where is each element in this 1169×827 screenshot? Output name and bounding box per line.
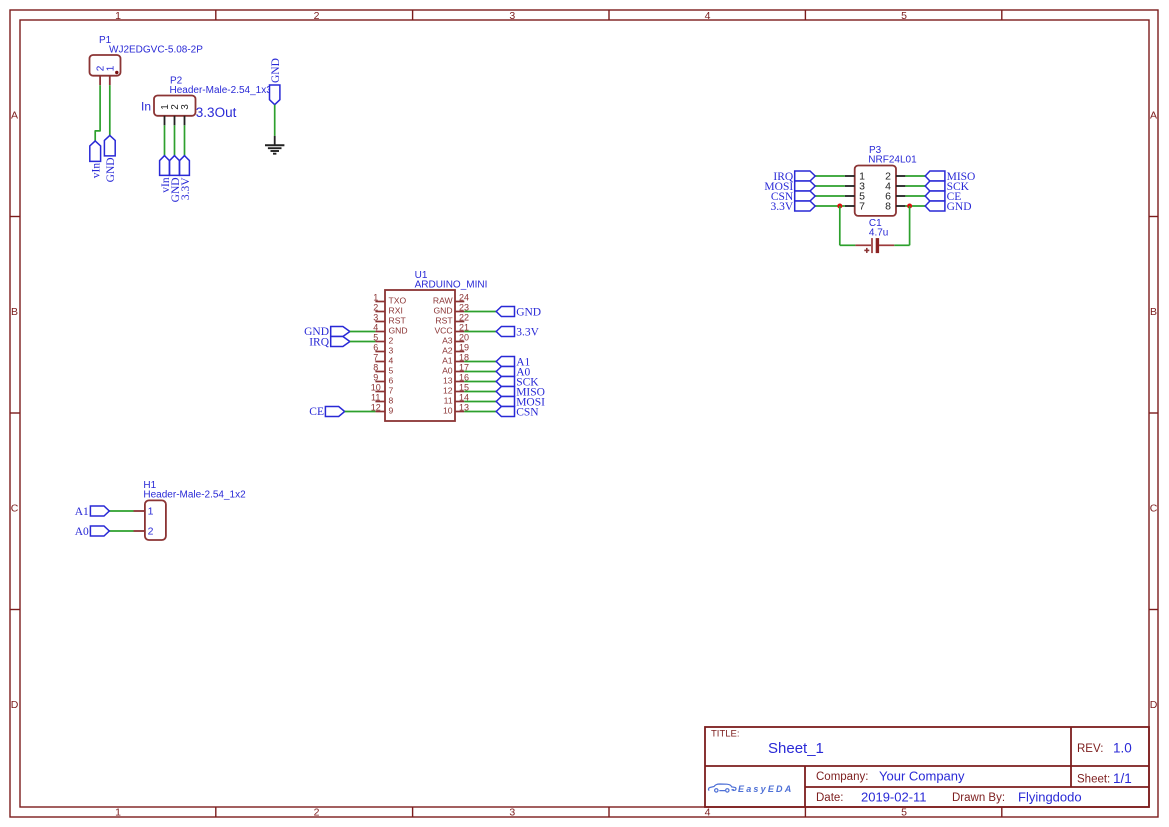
svg-text:GND: GND bbox=[105, 157, 117, 182]
svg-text:2: 2 bbox=[389, 336, 394, 346]
svg-text:20: 20 bbox=[459, 332, 469, 342]
svg-text:Flyingdodo: Flyingdodo bbox=[1018, 790, 1082, 805]
svg-text:A1: A1 bbox=[442, 356, 453, 366]
svg-text:RXI: RXI bbox=[389, 306, 403, 316]
svg-text:Company:: Company: bbox=[816, 771, 868, 783]
svg-text:A1: A1 bbox=[75, 506, 89, 518]
svg-text:2: 2 bbox=[373, 302, 378, 312]
svg-text:4: 4 bbox=[389, 356, 394, 366]
svg-text:A0: A0 bbox=[442, 366, 453, 376]
svg-text:2: 2 bbox=[148, 526, 154, 538]
svg-text:Drawn By:: Drawn By: bbox=[952, 792, 1005, 804]
svg-text:2: 2 bbox=[314, 10, 320, 22]
svg-text:5: 5 bbox=[901, 806, 907, 818]
svg-text:A: A bbox=[11, 109, 18, 121]
svg-text:TITLE:: TITLE: bbox=[711, 729, 740, 740]
svg-text:D: D bbox=[11, 699, 19, 711]
svg-text:8: 8 bbox=[373, 362, 378, 372]
svg-text:In: In bbox=[141, 100, 151, 114]
svg-text:9: 9 bbox=[373, 372, 378, 382]
svg-text:3.3V: 3.3V bbox=[516, 326, 539, 338]
svg-text:A3: A3 bbox=[442, 336, 453, 346]
svg-text:ARDUINO_MINI: ARDUINO_MINI bbox=[415, 280, 488, 291]
svg-text:1: 1 bbox=[148, 506, 154, 518]
svg-text:Sheet_1: Sheet_1 bbox=[768, 740, 824, 757]
svg-text:7: 7 bbox=[859, 201, 865, 213]
svg-text:10: 10 bbox=[371, 382, 381, 392]
svg-text:3.3Out: 3.3Out bbox=[196, 105, 237, 120]
svg-text:RST: RST bbox=[389, 316, 407, 326]
svg-text:C: C bbox=[1150, 502, 1158, 514]
svg-text:RAW: RAW bbox=[433, 296, 454, 306]
svg-text:6: 6 bbox=[389, 376, 394, 386]
svg-text:NRF24L01: NRF24L01 bbox=[868, 155, 917, 166]
svg-text:B: B bbox=[11, 306, 18, 318]
svg-text:VCC: VCC bbox=[434, 326, 452, 336]
svg-text:1: 1 bbox=[105, 65, 116, 71]
svg-text:vIn: vIn bbox=[90, 163, 102, 179]
svg-text:22: 22 bbox=[459, 312, 469, 322]
svg-text:3: 3 bbox=[180, 104, 191, 110]
svg-text:3: 3 bbox=[509, 10, 515, 22]
svg-text:12: 12 bbox=[443, 386, 453, 396]
svg-text:11: 11 bbox=[444, 396, 453, 406]
svg-text:3: 3 bbox=[373, 312, 378, 322]
svg-text:B: B bbox=[1150, 306, 1157, 318]
svg-text:CSN: CSN bbox=[516, 406, 539, 418]
svg-text:7: 7 bbox=[373, 352, 378, 362]
svg-text:GND: GND bbox=[389, 326, 408, 336]
svg-text:CE: CE bbox=[309, 406, 324, 418]
svg-text:3: 3 bbox=[389, 346, 394, 356]
svg-text:4.7u: 4.7u bbox=[869, 228, 888, 239]
svg-text:EasyEDA: EasyEDA bbox=[738, 784, 793, 794]
svg-text:5: 5 bbox=[901, 10, 907, 22]
svg-text:C: C bbox=[11, 502, 19, 514]
svg-text:1: 1 bbox=[373, 292, 378, 302]
svg-text:4: 4 bbox=[705, 10, 711, 22]
svg-text:5: 5 bbox=[389, 366, 394, 376]
svg-text:Header-Male-2.54_1x2: Header-Male-2.54_1x2 bbox=[143, 490, 246, 501]
svg-text:6: 6 bbox=[373, 342, 378, 352]
svg-text:2019-02-11: 2019-02-11 bbox=[861, 790, 927, 805]
svg-text:RST: RST bbox=[435, 316, 453, 326]
svg-text:A2: A2 bbox=[442, 346, 453, 356]
svg-text:7: 7 bbox=[389, 386, 394, 396]
svg-text:3: 3 bbox=[509, 806, 515, 818]
svg-text:Date:: Date: bbox=[816, 792, 844, 804]
svg-text:1/1: 1/1 bbox=[1113, 771, 1132, 786]
svg-text:4: 4 bbox=[705, 806, 711, 818]
svg-text:11: 11 bbox=[371, 392, 380, 402]
svg-text:Header-Male-2.54_1x3: Header-Male-2.54_1x3 bbox=[170, 85, 273, 96]
svg-text:IRQ: IRQ bbox=[309, 336, 330, 348]
svg-text:TXO: TXO bbox=[389, 296, 407, 306]
svg-text:2: 2 bbox=[314, 806, 320, 818]
svg-text:WJ2EDGVC-5.08-2P: WJ2EDGVC-5.08-2P bbox=[109, 45, 203, 56]
svg-text:1: 1 bbox=[115, 10, 121, 22]
svg-text:REV:: REV: bbox=[1077, 743, 1103, 755]
svg-text:D: D bbox=[1150, 699, 1158, 711]
svg-text:GND: GND bbox=[947, 201, 972, 213]
svg-text:13: 13 bbox=[443, 376, 453, 386]
svg-text:8: 8 bbox=[885, 201, 891, 213]
svg-text:3.3V: 3.3V bbox=[180, 177, 192, 200]
svg-text:8: 8 bbox=[389, 396, 394, 406]
svg-text:Your Company: Your Company bbox=[879, 769, 965, 784]
svg-text:GND: GND bbox=[433, 306, 452, 316]
svg-text:10: 10 bbox=[443, 406, 453, 416]
svg-text:3.3V: 3.3V bbox=[771, 201, 794, 213]
svg-text:1.0: 1.0 bbox=[1113, 741, 1132, 756]
svg-text:A0: A0 bbox=[75, 526, 89, 538]
svg-text:1: 1 bbox=[115, 806, 121, 818]
svg-text:9: 9 bbox=[389, 406, 394, 416]
svg-text:24: 24 bbox=[459, 292, 469, 302]
svg-text:GND: GND bbox=[516, 306, 541, 318]
svg-text:A: A bbox=[1150, 109, 1157, 121]
svg-text:Sheet:: Sheet: bbox=[1077, 774, 1110, 786]
svg-text:GND: GND bbox=[270, 58, 282, 83]
svg-text:19: 19 bbox=[459, 342, 469, 352]
